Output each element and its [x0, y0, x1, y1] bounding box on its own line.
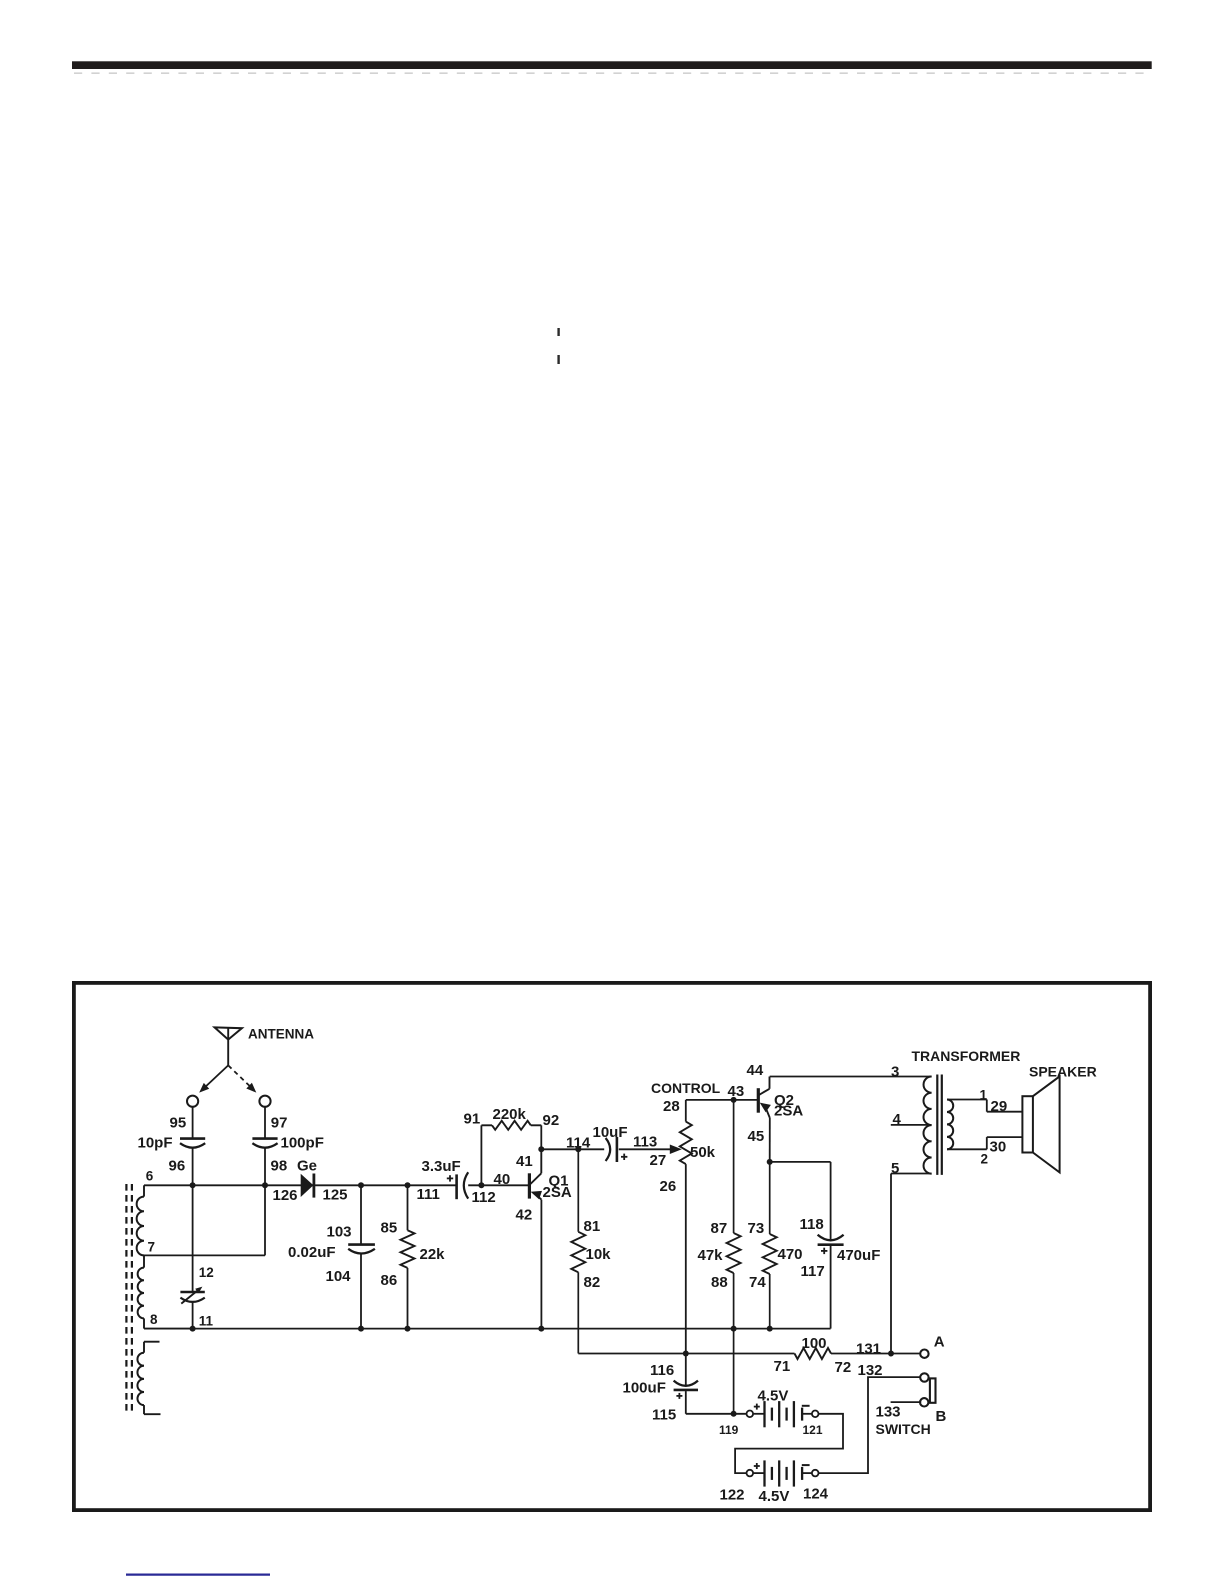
node 103 bottom	[358, 1326, 364, 1332]
svg-text:125: 125	[323, 1187, 348, 1204]
svg-text:133: 133	[876, 1403, 901, 1420]
svg-text:98: 98	[271, 1158, 288, 1175]
svg-text:8: 8	[150, 1312, 158, 1327]
svg-text:124: 124	[803, 1486, 829, 1503]
svg-text:TRANSFORMER: TRANSFORMER	[912, 1048, 1021, 1064]
svg-text:88: 88	[711, 1274, 728, 1291]
svg-text:112: 112	[472, 1189, 496, 1206]
switch terminal bottom	[920, 1398, 928, 1406]
svg-text:4.5V: 4.5V	[758, 1388, 789, 1405]
svg-text:SWITCH: SWITCH	[876, 1421, 931, 1437]
svg-text:42: 42	[516, 1206, 533, 1223]
transformer secondary	[947, 1100, 953, 1150]
svg-text:111: 111	[417, 1186, 440, 1203]
coil winding lower (untapped)	[144, 1341, 160, 1343]
wire Q2 base rail	[686, 1099, 758, 1101]
svg-text:85: 85	[381, 1220, 398, 1237]
wire pin5 drop	[890, 1174, 892, 1354]
svg-text:3.3uF: 3.3uF	[422, 1158, 461, 1175]
svg-text:73: 73	[748, 1220, 765, 1237]
svg-text:100uF: 100uF	[623, 1379, 666, 1396]
node bus 470	[767, 1326, 773, 1332]
potentiometer 50k CONTROL	[685, 1100, 687, 1122]
faint dashed rule	[74, 72, 1148, 74]
wire ground bus	[144, 1328, 831, 1330]
svg-text:1: 1	[980, 1088, 988, 1103]
wire secondary bottom step	[986, 1137, 988, 1149]
node 85 top	[405, 1182, 411, 1188]
svg-text:104: 104	[326, 1268, 352, 1285]
svg-text:41: 41	[516, 1153, 533, 1170]
blue footnote rule	[126, 1573, 270, 1575]
wire battery1 left	[686, 1413, 747, 1415]
wire pin 7	[144, 1254, 265, 1256]
svg-text:4.5V: 4.5V	[759, 1488, 790, 1505]
stray mark 2	[557, 355, 559, 364]
svg-text:5: 5	[891, 1160, 899, 1177]
svg-text:121: 121	[803, 1423, 823, 1437]
wire Q2 collector	[770, 1076, 932, 1078]
svg-text:87: 87	[711, 1220, 728, 1237]
svg-text:82: 82	[584, 1274, 601, 1291]
node 103 top	[358, 1182, 364, 1188]
svg-text:SPEAKER: SPEAKER	[1029, 1064, 1097, 1080]
wire switch stub	[891, 1401, 922, 1403]
svg-text:ANTENNA: ANTENNA	[248, 1027, 314, 1042]
schematic frame	[74, 983, 1150, 1510]
svg-text:91: 91	[464, 1111, 481, 1128]
svg-text:95: 95	[170, 1114, 187, 1131]
resistor 87/88 47k	[733, 1100, 735, 1233]
node 86 bottom	[405, 1326, 411, 1332]
terminal A	[920, 1350, 928, 1358]
svg-text:47k: 47k	[698, 1247, 724, 1264]
wire Q1 collector rail	[541, 1148, 604, 1150]
wire battery series link	[735, 1414, 843, 1473]
node Q1 collector	[538, 1146, 544, 1152]
node bus var-cap	[190, 1326, 196, 1332]
svg-text:220k: 220k	[493, 1106, 527, 1123]
svg-text:122: 122	[720, 1486, 745, 1503]
transistor Q2 2SA	[757, 1088, 760, 1113]
battery B2 4.5V	[747, 1470, 754, 1477]
svg-text:470uF: 470uF	[837, 1247, 880, 1264]
svg-text:3: 3	[891, 1064, 899, 1081]
wire lower rail	[578, 1353, 794, 1355]
svg-text:74: 74	[749, 1274, 766, 1291]
svg-text:117: 117	[801, 1263, 825, 1280]
svg-text:131: 131	[856, 1340, 881, 1357]
svg-text:114: 114	[566, 1134, 591, 1151]
svg-text:86: 86	[381, 1272, 398, 1289]
svg-text:40: 40	[494, 1171, 511, 1188]
switch bar	[930, 1378, 936, 1402]
svg-text:2SA: 2SA	[543, 1184, 572, 1201]
svg-text:45: 45	[748, 1128, 765, 1145]
svg-text:A: A	[934, 1333, 945, 1350]
svg-text:CONTROL: CONTROL	[651, 1080, 721, 1096]
svg-text:11: 11	[199, 1313, 214, 1328]
svg-text:10uF: 10uF	[593, 1124, 628, 1141]
ferrite core dashed lines	[125, 1184, 127, 1415]
svg-text:96: 96	[169, 1158, 186, 1175]
svg-text:43: 43	[728, 1083, 745, 1100]
svg-text:71: 71	[774, 1358, 791, 1375]
svg-text:27: 27	[650, 1152, 667, 1169]
capacitor 95 10pF	[192, 1107, 194, 1138]
wire 98 to pin7 drop	[264, 1185, 266, 1255]
terminal circle right	[259, 1096, 270, 1107]
antenna symbol	[215, 1027, 242, 1039]
battery B1 4.5V	[747, 1411, 754, 1418]
node 114	[575, 1146, 581, 1152]
svg-text:2: 2	[981, 1152, 989, 1167]
node bus 47k	[731, 1326, 737, 1332]
svg-text:7: 7	[148, 1240, 156, 1255]
svg-text:72: 72	[835, 1359, 852, 1376]
svg-text:113: 113	[633, 1134, 657, 1151]
svg-text:10pF: 10pF	[138, 1135, 173, 1152]
variable capacitor 12/11	[192, 1185, 194, 1291]
capacitor 10uF 114/113	[606, 1138, 611, 1161]
svg-text:Ge: Ge	[297, 1158, 317, 1175]
node Q1 emitter ground	[538, 1326, 544, 1332]
resistor 71/72 100	[795, 1348, 832, 1359]
transformer core	[936, 1075, 938, 1175]
node 112 junction	[478, 1182, 484, 1188]
wire pin 8	[144, 1328, 193, 1330]
svg-text:28: 28	[663, 1098, 680, 1115]
svg-text:2SA: 2SA	[774, 1103, 803, 1120]
node lower rail 116	[683, 1351, 689, 1357]
wire main rail	[144, 1184, 456, 1186]
resistor 81/82 10k	[577, 1149, 579, 1232]
wire secondary top step	[986, 1100, 988, 1112]
switch terminal top	[920, 1373, 928, 1381]
diode Ge 125/126	[301, 1174, 314, 1197]
capacitor 3.3uF 111/112	[455, 1174, 458, 1199]
svg-text:132: 132	[858, 1362, 883, 1379]
transistor Q1 2SA	[528, 1173, 531, 1198]
svg-text:100: 100	[802, 1335, 827, 1352]
node cap97 junction	[262, 1182, 268, 1188]
wire 113 segment	[619, 1148, 676, 1150]
wire 112 segment	[468, 1184, 529, 1186]
svg-text:10k: 10k	[586, 1246, 612, 1263]
resistor 91/92 220k	[480, 1125, 482, 1185]
svg-text:50k: 50k	[690, 1144, 716, 1161]
svg-text:116: 116	[650, 1362, 674, 1379]
svg-text:26: 26	[660, 1178, 677, 1195]
coil winding 7-8	[143, 1255, 145, 1267]
svg-text:4: 4	[893, 1111, 902, 1128]
node 87 top	[731, 1097, 737, 1103]
svg-text:92: 92	[543, 1112, 560, 1129]
stray mark 1	[557, 328, 559, 336]
resistor 85/86 22k	[407, 1185, 409, 1230]
wire emitter to 470uF	[770, 1161, 831, 1163]
wire antenna fork left	[203, 1065, 229, 1089]
capacitor 118/117 470uF	[830, 1162, 832, 1240]
svg-text:97: 97	[271, 1114, 288, 1131]
node cap95 junction	[190, 1182, 196, 1188]
svg-text:118: 118	[800, 1216, 824, 1233]
wire pin 5	[891, 1173, 932, 1175]
capacitor 103 0.02uF	[360, 1185, 362, 1244]
wire battery2 to switch	[819, 1377, 922, 1473]
node lower rail xfmr	[888, 1351, 894, 1357]
transformer primary	[923, 1077, 931, 1174]
wire antenna fork right (dashed)	[228, 1065, 253, 1089]
wire pin 4	[891, 1124, 932, 1126]
svg-text:29: 29	[991, 1098, 1008, 1115]
svg-text:22k: 22k	[420, 1246, 446, 1263]
svg-text:0.02uF: 0.02uF	[288, 1244, 336, 1261]
svg-text:44: 44	[747, 1062, 764, 1079]
resistor 73/74 470	[769, 1162, 771, 1234]
svg-text:6: 6	[146, 1169, 154, 1184]
svg-text:115: 115	[652, 1406, 676, 1423]
node battery1 47k	[731, 1411, 737, 1417]
coil winding 6-7	[143, 1185, 145, 1196]
node Q2 emitter junction	[767, 1159, 773, 1165]
svg-text:119: 119	[719, 1423, 739, 1437]
speaker	[1022, 1096, 1033, 1152]
svg-text:126: 126	[273, 1187, 298, 1204]
svg-text:12: 12	[199, 1265, 214, 1280]
svg-text:B: B	[936, 1408, 947, 1425]
terminal circle left	[187, 1096, 198, 1107]
top rule bar	[72, 61, 1152, 69]
svg-text:30: 30	[990, 1139, 1007, 1156]
svg-text:103: 103	[327, 1224, 352, 1241]
capacitor 116/115 100uF	[685, 1354, 687, 1387]
svg-text:100pF: 100pF	[281, 1135, 324, 1152]
svg-text:470: 470	[778, 1246, 803, 1263]
capacitor 97 100pF	[264, 1107, 266, 1138]
svg-text:81: 81	[584, 1218, 601, 1235]
